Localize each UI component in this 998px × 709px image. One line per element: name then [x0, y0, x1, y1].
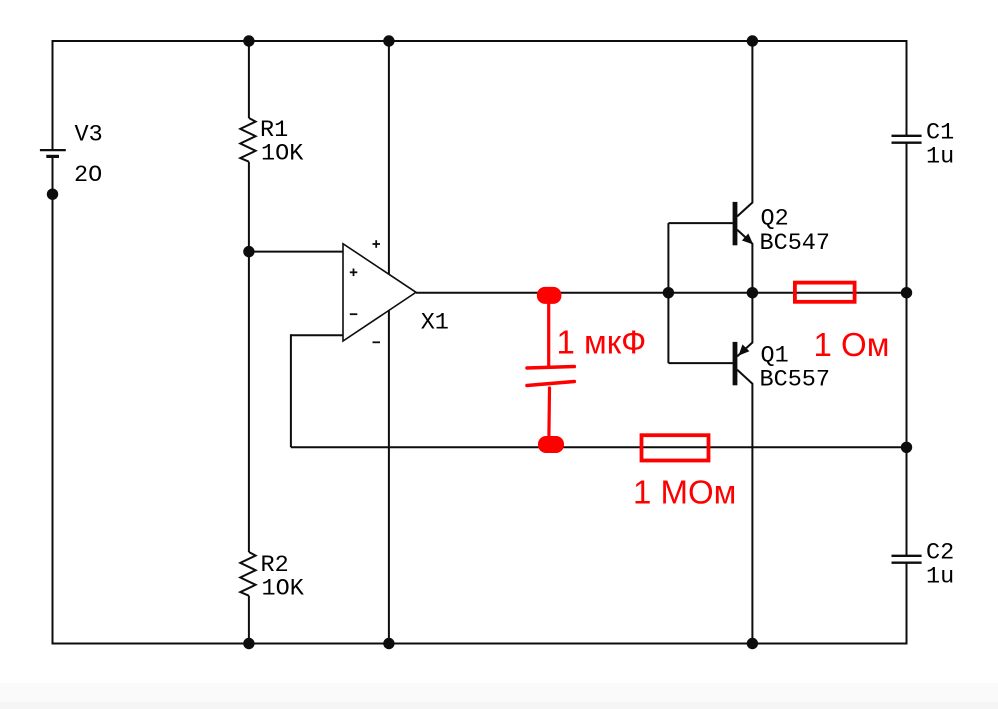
svg-text:1 МОм: 1 МОм — [633, 474, 736, 511]
resistor R2 — [240, 552, 255, 596]
wire output net — [416, 292, 907, 294]
wire right rail lower — [906, 563, 908, 645]
wire Q1 emitter riser — [737, 293, 752, 357]
svg-text:1 Ом: 1 Ом — [814, 326, 890, 363]
wire left rail upper — [52, 40, 54, 149]
transistor Q1 — [733, 342, 749, 385]
node battery minus — [47, 189, 58, 200]
node noninverting input — [243, 246, 254, 257]
svg-text:1u: 1u — [926, 564, 954, 591]
red annotation node lower — [538, 436, 564, 453]
node output right — [901, 287, 912, 298]
wire left rail lower — [52, 157, 54, 645]
svg-text:1OK: 1OK — [261, 141, 304, 168]
svg-text:C2: C2 — [926, 540, 954, 567]
svg-text:1OK: 1OK — [262, 576, 305, 603]
wire Q2 emitter drop — [737, 230, 752, 293]
red annotation node upper — [537, 287, 562, 304]
wire top rail — [53, 40, 907, 42]
wire Q2 collector riser — [737, 41, 752, 216]
svg-text:X1: X1 — [421, 309, 449, 336]
wire resistor branch top — [248, 41, 250, 118]
wire feedback vertical — [290, 334, 292, 447]
red annotation resistor box 1 MOhm — [642, 435, 709, 460]
wire supply rail lower — [388, 310, 390, 643]
wire lower net — [291, 446, 907, 448]
capacitor C1 — [892, 136, 922, 143]
red annotation capacitor plates — [527, 302, 574, 437]
wire feedback horizontal — [291, 334, 343, 336]
node bottom rail / R branch — [243, 638, 254, 649]
wire right rail upper — [906, 40, 908, 136]
svg-text:C1: C1 — [926, 120, 954, 147]
svg-text:2O: 2O — [74, 162, 102, 189]
node bottom rail / supply rail — [383, 638, 394, 649]
svg-text:1 мкФ: 1 мкФ — [557, 324, 647, 361]
wire Q1 collector drop — [737, 370, 752, 644]
svg-text:Q1: Q1 — [761, 343, 789, 370]
battery V3 — [40, 150, 66, 156]
node bottom rail / Q1 collector — [747, 638, 758, 649]
red annotation resistor box 1 Ohm — [795, 283, 855, 302]
transistor Q2 — [733, 202, 753, 245]
node lower net right — [901, 442, 912, 453]
node base junction — [663, 287, 674, 298]
red annotation capacitor lead lower — [547, 388, 551, 437]
wire supply rail upper — [388, 41, 390, 274]
capacitor C2 — [892, 556, 922, 563]
wire bottom rail — [53, 643, 907, 645]
wire resistor branch bottom — [248, 596, 250, 644]
svg-text:1u: 1u — [926, 144, 954, 171]
node top rail / Q2 collector — [747, 35, 758, 46]
wire Q1 base — [668, 362, 732, 364]
wire base node vertical — [667, 223, 669, 363]
node emitter junction — [747, 287, 758, 298]
wire resistor branch middle — [248, 162, 250, 552]
svg-text:Q2: Q2 — [761, 205, 789, 232]
svg-text:BC547: BC547 — [760, 230, 831, 257]
red annotation capacitor lead upper — [547, 302, 550, 366]
node top rail / supply rail — [383, 35, 394, 46]
wire noninverting input — [249, 251, 343, 253]
resistor R1 — [240, 118, 255, 162]
svg-text:V3: V3 — [75, 121, 103, 148]
wire right rail middle — [906, 143, 908, 556]
wire Q2 base — [668, 222, 732, 224]
op-amp X1 — [343, 240, 416, 342]
node top rail / R branch — [243, 35, 254, 46]
svg-text:BC557: BC557 — [760, 367, 831, 394]
